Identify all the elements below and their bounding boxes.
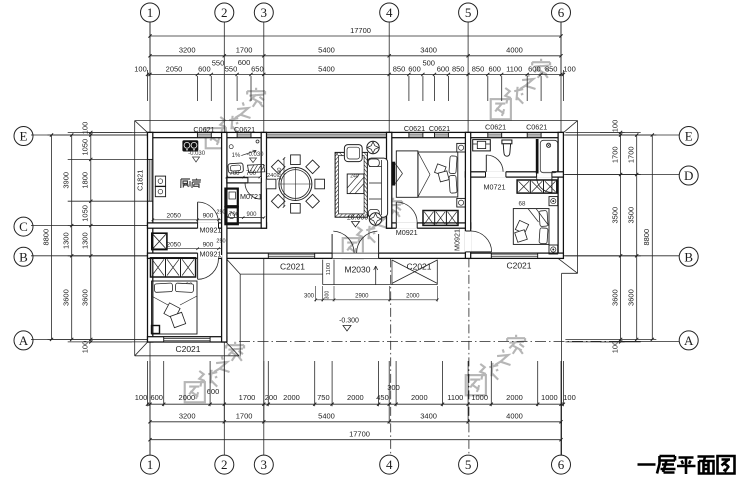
axis 3 bottom segment [263, 258, 265, 455]
svg-text:C0621: C0621 [485, 123, 506, 132]
svg-text:1300: 1300 [62, 232, 71, 249]
axis C left segment [31, 225, 148, 227]
watermark 图纸之家 bottom-left [185, 342, 244, 402]
dining table round with 8 chairs [279, 168, 312, 201]
svg-text:3500: 3500 [610, 207, 619, 224]
bath1 floor drain [229, 145, 233, 149]
svg-text:3400: 3400 [420, 46, 437, 55]
svg-text:2000: 2000 [506, 393, 523, 402]
svg-text:-0.030: -0.030 [188, 151, 206, 157]
terrace ramp hatch [392, 260, 437, 283]
bedroom1 blanket fold [418, 152, 430, 175]
kitchen label 厨房 (drawn strokes) [181, 179, 190, 188]
watermark 图纸之家 bottom-right [466, 335, 525, 395]
svg-text:2000: 2000 [347, 393, 364, 402]
bottom extension lines [147, 361, 149, 406]
bedroom3 pillows [154, 283, 172, 292]
wall bath1 divider [227, 178, 261, 183]
svg-text:4: 4 [386, 5, 393, 20]
svg-text:1700: 1700 [236, 411, 253, 420]
svg-text:1: 1 [147, 5, 154, 20]
svg-text:250: 250 [216, 239, 225, 245]
svg-text:200: 200 [265, 393, 278, 402]
window C0621 closet north [527, 133, 541, 135]
bedroom2 blanket fold [536, 209, 549, 226]
svg-text:-0.030: -0.030 [246, 152, 264, 158]
wall south main [148, 253, 564, 258]
eave corner tie SW (bedroom) [135, 341, 149, 356]
kitchen stove [182, 140, 198, 151]
svg-text:A: A [19, 333, 29, 348]
bath1 corner drain [256, 140, 259, 143]
svg-text:100: 100 [610, 341, 619, 354]
wall west [148, 132, 153, 342]
bottom dimension row2 line [150, 421, 561, 423]
svg-text:C2021: C2021 [506, 261, 531, 271]
svg-text:2000: 2000 [179, 393, 196, 402]
watermark 图纸之家 top-center [491, 59, 550, 119]
door opening bedroom1 M0921 [396, 222, 417, 229]
svg-text:650: 650 [251, 65, 264, 74]
svg-text:100: 100 [81, 341, 90, 354]
bedroom2 nightstand top [549, 197, 558, 206]
svg-text:D: D [684, 168, 693, 183]
svg-text:C0621: C0621 [429, 124, 450, 133]
svg-text:3600: 3600 [610, 289, 619, 306]
svg-text:8800: 8800 [41, 229, 50, 246]
wall axis-5 [465, 132, 470, 258]
bedroom2 wardrobe 3 boxes [517, 180, 557, 193]
svg-text:3200: 3200 [179, 46, 196, 55]
svg-text:850: 850 [545, 65, 558, 74]
svg-text:900: 900 [246, 212, 257, 218]
eave outline terrace south-left [240, 273, 323, 275]
bedroom1 TV on west wall [392, 162, 395, 186]
svg-text:1: 1 [147, 457, 154, 472]
svg-text:600: 600 [150, 393, 163, 402]
window C0621 bedroom1 north a [409, 133, 423, 135]
terrace step platform [322, 260, 324, 285]
kitchen sink counter [155, 176, 165, 186]
svg-text:700: 700 [229, 212, 240, 218]
door leaf+arc bedroom1 M0921 [395, 202, 397, 223]
door leaf+arc bath2 M0721 [485, 155, 487, 172]
svg-text:100: 100 [134, 65, 147, 74]
svg-text:2000: 2000 [406, 294, 420, 300]
bedroom3 nightstand [152, 326, 160, 334]
eave outline terrace west edge [239, 274, 241, 356]
svg-text:5400: 5400 [318, 65, 335, 74]
living coffee table hatched [347, 174, 364, 194]
svg-text:1100: 1100 [447, 393, 463, 402]
window C0621 bath1 north [237, 133, 251, 135]
svg-text:M2030: M2030 [345, 264, 371, 274]
bath1 mirror hatched [248, 164, 265, 172]
window C0621 kitchen north [197, 133, 211, 135]
svg-text:850: 850 [452, 65, 465, 74]
left dimension detail column [90, 132, 92, 342]
svg-text:1700: 1700 [627, 146, 636, 163]
window C2021 bedroom2 south [491, 254, 537, 256]
right dimension outer column 8800 [651, 135, 653, 339]
top extension lines for window edges [196, 76, 198, 101]
top dimension line row3 window positions [148, 73, 564, 75]
bath2/shower partition [536, 139, 539, 174]
svg-text:C0621: C0621 [404, 124, 425, 133]
svg-text:C1821: C1821 [136, 170, 145, 191]
svg-text:5400: 5400 [318, 411, 335, 420]
entry direction arrow [375, 266, 377, 285]
svg-text:2900: 2900 [355, 294, 369, 300]
axis grid vertical lines 1-6 (top segments) [149, 22, 151, 132]
svg-text:-0.300: -0.300 [339, 318, 359, 325]
svg-text:250: 250 [216, 210, 225, 216]
svg-text:B: B [19, 249, 28, 264]
svg-text:C2021: C2021 [406, 262, 431, 272]
shower floor drain [547, 143, 551, 147]
svg-text:M0921: M0921 [453, 229, 462, 251]
svg-text:850: 850 [393, 65, 406, 74]
svg-text:E: E [685, 129, 693, 144]
svg-text:600: 600 [437, 65, 450, 74]
svg-text:C0621: C0621 [234, 125, 255, 134]
axis B right segment [563, 255, 679, 257]
svg-text:3600: 3600 [62, 289, 71, 306]
svg-text:M0921: M0921 [396, 228, 418, 237]
axis 2 bottom segment [223, 342, 225, 455]
svg-text:4000: 4000 [506, 46, 523, 55]
svg-text:1100: 1100 [326, 263, 332, 275]
axis bubbles E D B A right [679, 127, 698, 146]
bath1 dim 700/700 [227, 176, 260, 178]
terrace step inner line [333, 260, 335, 285]
svg-text:3900: 3900 [62, 172, 71, 189]
axis 5 dash-dot through terrace [468, 258, 470, 455]
top dimension line row2 3200/1700/5400/3400/4000 [150, 55, 561, 57]
svg-text:2000: 2000 [283, 393, 300, 402]
svg-text:1000: 1000 [541, 393, 558, 402]
wall axis-D bath2 south [465, 172, 563, 177]
living side table bottom (circle star) [369, 213, 381, 225]
svg-text:17700: 17700 [350, 26, 371, 35]
svg-text:1800: 1800 [277, 168, 283, 181]
svg-text:3600: 3600 [81, 289, 90, 306]
svg-text:600: 600 [408, 65, 421, 74]
bedroom2 bed [513, 209, 549, 245]
svg-text:900: 900 [203, 241, 214, 248]
wall bedroom3 south [148, 337, 227, 342]
eave corner tie terrace [227, 259, 240, 274]
svg-text:3400: 3400 [420, 411, 437, 420]
svg-text:M0921: M0921 [200, 225, 222, 234]
svg-text:1050: 1050 [81, 205, 90, 222]
svg-text:2050: 2050 [166, 65, 183, 74]
window C2021 bedroom3 south [164, 337, 210, 339]
svg-text:M0921: M0921 [200, 249, 222, 258]
door opening bath1 M0721 [248, 177, 261, 184]
bedroom1 pillows [449, 156, 457, 174]
svg-text:700: 700 [229, 171, 240, 177]
bedroom1 nightstand top [457, 143, 466, 152]
svg-text:68: 68 [519, 201, 526, 208]
shower enclosure outline [540, 140, 557, 172]
svg-text:700: 700 [246, 171, 257, 177]
bottom dimension row1 line with openings [148, 403, 564, 405]
axis D right segment [563, 174, 679, 176]
svg-text:8800: 8800 [642, 229, 651, 246]
door leaf+arc bath1 M0721 [245, 182, 261, 184]
bedroom2 pillows [539, 211, 548, 227]
door leaf+arc kitchen M0921 [197, 202, 199, 223]
living side table top (circle star) [367, 141, 379, 153]
svg-text:850: 850 [472, 65, 485, 74]
bath1 fixture lower [225, 207, 237, 224]
wall axis-C kitchen/bath south [148, 223, 267, 228]
bedroom1 wardrobe 3 boxes [423, 211, 458, 226]
svg-text:300: 300 [324, 291, 330, 300]
svg-text:A: A [684, 333, 694, 348]
svg-text:1800: 1800 [81, 172, 90, 189]
corridor dim 2050/900/250 [153, 248, 222, 250]
svg-text:2: 2 [221, 457, 228, 472]
svg-text:5400: 5400 [318, 46, 335, 55]
svg-text:3200: 3200 [179, 411, 196, 420]
svg-text:100: 100 [563, 393, 576, 402]
watermark 图纸之家 center (entry) [343, 198, 402, 258]
svg-text:100: 100 [610, 120, 619, 133]
bedroom2 clothes pile [515, 220, 528, 233]
svg-text:3: 3 [261, 5, 268, 20]
svg-text:1700: 1700 [610, 146, 619, 163]
svg-text:17700: 17700 [349, 429, 370, 438]
svg-text:±0.000: ±0.000 [347, 215, 368, 222]
svg-text:2000: 2000 [411, 393, 428, 402]
svg-text:6: 6 [558, 5, 565, 20]
living single sofa top [344, 145, 362, 162]
door leaf+arc entry M2030 double [331, 234, 333, 253]
svg-text:C0621: C0621 [526, 123, 547, 132]
svg-text:C: C [19, 219, 28, 234]
svg-text:600: 600 [528, 65, 541, 74]
door leaf+arc bedroom2 M0921 [471, 251, 492, 253]
dining dim 1800 rotated [283, 159, 285, 207]
svg-text:6: 6 [558, 457, 565, 472]
svg-text:1700: 1700 [236, 46, 253, 55]
svg-text:1100: 1100 [506, 65, 522, 74]
svg-text:2: 2 [221, 5, 228, 20]
svg-text:3600: 3600 [627, 289, 636, 306]
wall axis-3 [261, 132, 266, 228]
wall east [558, 132, 563, 258]
kitchen dim 2050/900/250 [153, 219, 222, 221]
bedroom1 nightstand bottom [457, 198, 466, 207]
watermark 图纸之家 upper-left [206, 88, 265, 148]
window C2021 corridor south [268, 254, 314, 256]
bedroom3 blanket fold [152, 296, 169, 305]
door opening entry M2030 [332, 252, 379, 259]
svg-text:1700: 1700 [239, 393, 256, 402]
wall north [148, 132, 564, 137]
svg-text:100: 100 [563, 65, 576, 74]
right extension lines [565, 131, 640, 133]
axis E left segment [31, 134, 148, 136]
door opening kitchen M0921 [198, 222, 219, 229]
window band dining/living north [267, 133, 387, 135]
bath2 washbasin counter [473, 140, 491, 151]
svg-text:1000: 1000 [471, 393, 488, 402]
eave corner tie NW [135, 121, 149, 134]
bath1 washbasin [228, 163, 244, 173]
axis E right segment [563, 134, 679, 136]
svg-text:2050: 2050 [166, 212, 181, 219]
svg-text:600: 600 [488, 65, 501, 74]
svg-text:C2021: C2021 [175, 344, 200, 354]
wall axis-2 [222, 132, 227, 342]
axis B left segment [31, 255, 148, 257]
svg-text:1%: 1% [232, 153, 241, 159]
svg-text:1050: 1050 [81, 139, 90, 156]
eave corner tie bedroom SE [225, 341, 239, 356]
right dimension mid column [636, 135, 638, 339]
bath1 squat fixture upper [225, 189, 237, 207]
svg-text:5: 5 [465, 5, 472, 20]
svg-text:M0721: M0721 [484, 183, 506, 192]
eave outline bottom-left [135, 355, 239, 357]
svg-text:600: 600 [207, 387, 220, 396]
door opening closet [537, 171, 552, 178]
eave outline right [577, 121, 579, 274]
window C0621 bath2 north [488, 133, 502, 135]
axis 1 bottom segment [149, 342, 151, 455]
left dimension mid column 3900/1300/3600 [71, 135, 73, 339]
door opening bath2 M0721 [486, 171, 506, 178]
door opening bedroom2 M0921 [465, 231, 472, 252]
right dimension detail column [620, 132, 622, 342]
svg-text:900: 900 [203, 212, 214, 219]
svg-text:B: B [684, 249, 693, 264]
wall axis-4 [387, 132, 392, 228]
svg-text:M0721: M0721 [240, 192, 262, 201]
top dimension line 17700 [150, 35, 561, 37]
axis 6 bottom segment [561, 273, 563, 455]
svg-text:240: 240 [267, 173, 277, 179]
door jamb caps [197, 223, 199, 228]
axis A left segment [31, 338, 148, 340]
axis 4 dash-dot through terrace [390, 258, 392, 455]
title 一层平面图 (drawn bold strokes) [638, 456, 735, 474]
bedroom1 mattress [418, 152, 458, 197]
bedroom3 clothes pile [164, 303, 180, 319]
entry door M2030 threshold lines [332, 252, 379, 254]
bottom dimension row3 17700 [150, 439, 561, 441]
svg-text:550: 550 [225, 65, 238, 74]
wall axis-C bedroom1 south [387, 223, 471, 228]
bedroom2 nightstand bottom [549, 245, 558, 254]
eave corner tie NE [562, 121, 578, 134]
svg-text:5: 5 [465, 457, 472, 472]
svg-text:4: 4 [386, 457, 393, 472]
window C1821 kitchen west [148, 159, 150, 201]
svg-text:600: 600 [238, 58, 251, 67]
eave outline top [135, 120, 578, 122]
svg-text:500: 500 [422, 59, 435, 68]
svg-text:600: 600 [198, 65, 211, 74]
svg-text:100: 100 [135, 393, 148, 402]
svg-text:450: 450 [376, 393, 389, 402]
svg-text:3: 3 [261, 457, 268, 472]
bedroom1 (master) bed deck [396, 151, 418, 197]
svg-text:550: 550 [212, 59, 225, 68]
living long sofa right [367, 158, 387, 217]
axis bubbles E C B A left [14, 127, 33, 146]
eave outline left [134, 121, 136, 356]
bath2 toilet [502, 140, 512, 144]
svg-text:C0621: C0621 [193, 125, 214, 134]
svg-text:4000: 4000 [506, 411, 523, 420]
svg-text:750: 750 [317, 393, 330, 402]
svg-text:1300: 1300 [81, 232, 90, 249]
svg-text:2050: 2050 [166, 241, 181, 248]
axis bubbles 1-6 bottom [141, 455, 160, 474]
left dimension outer column 8800 [51, 135, 53, 339]
terrace dim 300/300/2900/2000 [316, 299, 438, 301]
axis A right segment [621, 340, 680, 342]
axis bubbles 1-6 top [141, 3, 160, 22]
door leaf+arc closet [551, 177, 553, 192]
living room carpet with hatched border [335, 152, 367, 217]
svg-text:3500: 3500 [627, 207, 636, 224]
bedroom3 bed [152, 281, 198, 334]
left extension lines [68, 131, 148, 133]
window C0621 bedroom1 north b [435, 133, 449, 135]
corridor wardrobe box with X [152, 233, 167, 249]
svg-text:300: 300 [304, 294, 315, 300]
eave corner tie SE [558, 258, 578, 273]
axis A dash-dot horizontal through terrace [239, 340, 621, 342]
bedroom1 clothes pile [435, 164, 447, 176]
svg-text:C2021: C2021 [280, 262, 305, 272]
bedroom3 wardrobe 3 boxes [151, 258, 196, 277]
door leaf+arc bedroom3 M0921 [197, 258, 199, 279]
door opening bedroom3 M0921 [198, 252, 219, 259]
svg-text:E: E [20, 129, 28, 144]
